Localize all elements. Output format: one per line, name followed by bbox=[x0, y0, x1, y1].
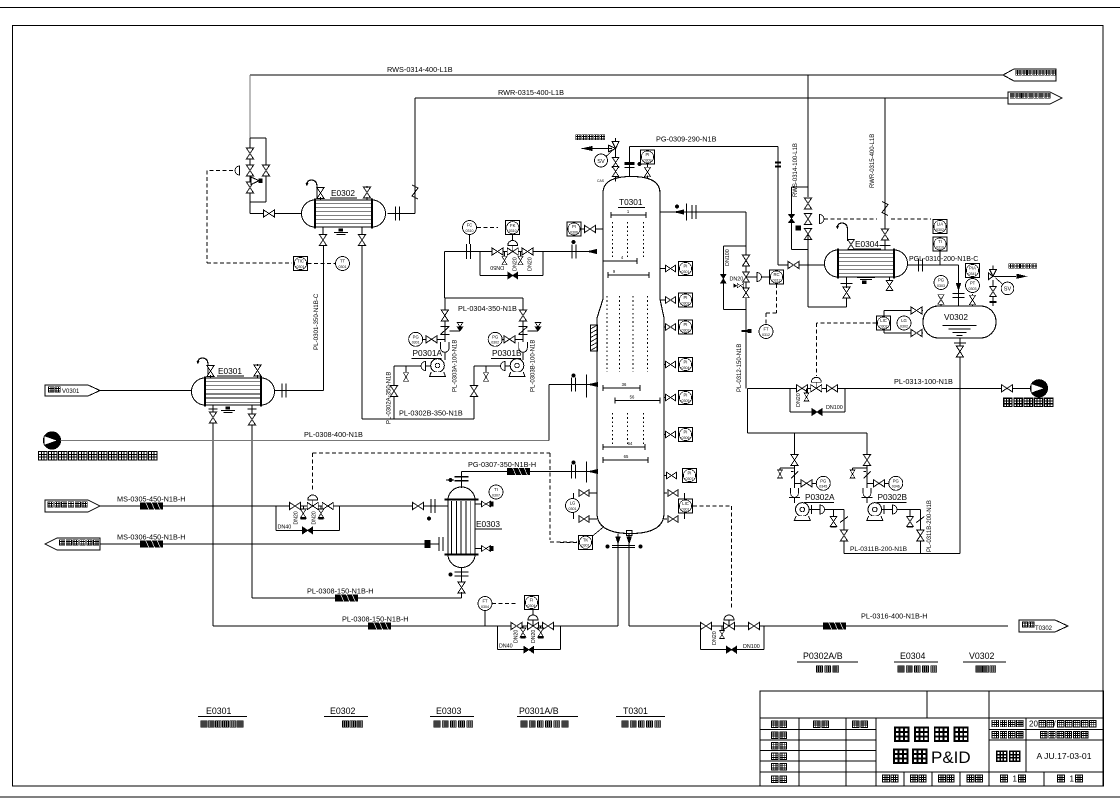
column right side level/pressure instruments bbox=[660, 268, 665, 270]
drum PG gauge bbox=[940, 296, 942, 306]
dashed LIC-0301 signal to bottoms control valve bbox=[693, 505, 732, 507]
instrument TK0301 bbox=[579, 535, 593, 549]
svg-text:CAS: CAS bbox=[597, 179, 605, 183]
P0301A discharge side vent bbox=[449, 330, 460, 332]
svg-text:0310: 0310 bbox=[936, 245, 944, 249]
title text: extractive distillation section P&ID bbox=[895, 728, 908, 741]
valves on PL-0312 main bbox=[742, 255, 749, 266]
svg-text:0302: 0302 bbox=[682, 301, 690, 305]
flag connector: MP steam supply header bbox=[45, 500, 100, 512]
svg-text:V0301: V0301 bbox=[62, 389, 80, 395]
svg-text:RC: RC bbox=[773, 272, 779, 277]
pipe riser RWS from E0302 to header bbox=[249, 75, 251, 138]
pipe PG-0309 into E0304 head bbox=[777, 147, 779, 266]
dashed signal FC to FK bbox=[477, 227, 498, 229]
E0301 drain mark bbox=[226, 407, 231, 410]
svg-text:PL-0312-150-N1B: PL-0312-150-N1B bbox=[737, 344, 743, 392]
insulation spec-break bar bbox=[368, 623, 391, 630]
svg-text:E0304: E0304 bbox=[900, 651, 926, 661]
E0302 top valve left bbox=[317, 188, 324, 199]
svg-text:PL-0302A-350-N1B: PL-0302A-350-N1B bbox=[387, 372, 393, 424]
instrument LIA0302 bbox=[933, 220, 947, 234]
title block row labels: duty/sign/date bbox=[772, 721, 779, 728]
instrument PI0307 bbox=[683, 469, 697, 483]
svg-text:0301: 0301 bbox=[682, 507, 690, 511]
svg-text:0306: 0306 bbox=[570, 230, 578, 234]
svg-text:LIC: LIC bbox=[880, 318, 887, 323]
svg-text:SV: SV bbox=[1004, 287, 1012, 293]
svg-text:TT: TT bbox=[340, 259, 346, 264]
svg-text:DN20: DN20 bbox=[712, 631, 718, 645]
svg-text:PG: PG bbox=[820, 479, 826, 484]
svg-text:T0301: T0301 bbox=[619, 197, 643, 207]
svg-text:DN40: DN40 bbox=[499, 644, 513, 650]
condenser E0304 shell and tube bbox=[825, 250, 908, 277]
PI-0306 root valve bbox=[585, 225, 596, 232]
svg-text:DN20: DN20 bbox=[796, 393, 802, 407]
pipe MS-0306-450-N1B-H bbox=[100, 543, 439, 545]
E0304 vent hook and valve bbox=[836, 223, 848, 241]
instrument TI-0307 bbox=[489, 485, 503, 499]
T0301 support hatch mark bbox=[591, 325, 598, 351]
svg-text:0304: 0304 bbox=[682, 366, 690, 370]
svg-text:0303: 0303 bbox=[682, 328, 690, 332]
svg-text:0346: 0346 bbox=[892, 485, 900, 489]
svg-text:TK: TK bbox=[583, 538, 589, 543]
svg-text:DN50: DN50 bbox=[490, 264, 504, 270]
instrument TI0310 bbox=[933, 237, 947, 251]
drum bottom outlet bbox=[959, 338, 961, 388]
svg-text:DN100: DN100 bbox=[725, 249, 731, 266]
title block outer frame bbox=[760, 691, 1104, 786]
svg-text:DN100: DN100 bbox=[826, 405, 843, 411]
E0303 bottom outlet bbox=[461, 568, 463, 598]
svg-text:T0301: T0301 bbox=[623, 706, 648, 716]
drum PT/PIA bbox=[972, 294, 974, 306]
small blind on bottom dome bbox=[626, 531, 632, 536]
three-way valve side port with cap bbox=[251, 177, 259, 185]
flag connector: to tower T0302 bbox=[1019, 620, 1068, 632]
pipe PG-0309-290-N1B overhead vapor line bbox=[630, 146, 778, 148]
spectacle blind on riser bbox=[625, 162, 635, 165]
E0303 right side stubs bbox=[475, 503, 482, 505]
pipe RWR-0315-400-L1B cooling water return header bbox=[415, 97, 1008, 99]
svg-text:0303: 0303 bbox=[969, 287, 977, 291]
relief line to flare with SV bbox=[615, 149, 617, 182]
svg-text:0301: 0301 bbox=[569, 507, 577, 511]
PG-0301 root valve bbox=[426, 336, 437, 343]
svg-text:DN20: DN20 bbox=[513, 257, 519, 271]
block valve near E0303 bbox=[413, 502, 424, 509]
svg-text:FT: FT bbox=[763, 327, 769, 332]
drain bowtie with black cone bbox=[734, 284, 737, 287]
column entry flange PG-0307 bbox=[572, 465, 576, 479]
insulation spec-break bar bbox=[823, 623, 846, 630]
column T0301 extractive distillation tower shell bbox=[597, 177, 664, 534]
svg-text:DN20: DN20 bbox=[531, 630, 537, 643]
svg-text:0312: 0312 bbox=[762, 333, 770, 337]
svg-text:PT: PT bbox=[970, 281, 976, 286]
svg-text:SV: SV bbox=[597, 159, 605, 165]
instrument PI0305 bbox=[679, 391, 693, 405]
svg-text:0345: 0345 bbox=[819, 485, 827, 489]
flag connector: cooling water return bbox=[1008, 92, 1062, 104]
pipe pump suction header from PL-0313 junction bbox=[747, 388, 749, 433]
block valve before tank connector bbox=[1002, 385, 1013, 392]
svg-text:64: 64 bbox=[628, 441, 633, 446]
pipe PL-0308-150-N1B-H lower bbox=[213, 625, 618, 627]
svg-text:FC: FC bbox=[467, 223, 473, 228]
instrument PG-0346 bbox=[889, 476, 903, 490]
svg-text:FI: FI bbox=[530, 598, 534, 603]
label: propane propylene mix from reaction section bbox=[39, 452, 47, 460]
heat exchanger E0301 shell and tube bbox=[192, 378, 275, 405]
svg-text:P0301A: P0301A bbox=[413, 348, 443, 358]
column entry flange of min-flow line bbox=[572, 245, 576, 259]
instrument FT-0312 bbox=[759, 325, 773, 339]
svg-text:0307: 0307 bbox=[686, 477, 694, 481]
svg-text:V0302: V0302 bbox=[969, 651, 995, 661]
E0301 top relief valve right bbox=[254, 365, 261, 376]
instrument FC-0310 bbox=[463, 221, 477, 235]
svg-text:PG: PG bbox=[413, 335, 419, 340]
svg-text:0301: 0301 bbox=[339, 265, 347, 269]
level gauge LG left column bottom bbox=[579, 492, 597, 494]
pipe PL-0311B-200-N1B discharge header bbox=[844, 553, 960, 555]
instrument PT-0303 bbox=[966, 279, 980, 293]
svg-text:0341: 0341 bbox=[969, 272, 977, 276]
svg-text:PI: PI bbox=[684, 295, 688, 300]
svg-text:PL-0301-350-N1B-C: PL-0301-350-N1B-C bbox=[313, 293, 320, 350]
instrument RC-0312 bbox=[770, 270, 784, 284]
svg-text:PL-0311B-200-N1B: PL-0311B-200-N1B bbox=[850, 546, 908, 553]
heat exchanger E0302 shell and tube bbox=[302, 200, 386, 227]
svg-text:RWS-0314-400-L1B: RWS-0314-400-L1B bbox=[387, 65, 453, 74]
instrument LG-0302 bbox=[897, 316, 911, 330]
svg-text:A JU.17-03-01: A JU.17-03-01 bbox=[1037, 751, 1092, 761]
dashed instrument signal line to TIC-0301 bbox=[207, 170, 233, 172]
P0301A suction drain bbox=[405, 366, 407, 372]
svg-text:MS-0306-450-N1B-H: MS-0306-450-N1B-H bbox=[117, 533, 186, 542]
E0304 right bottom drain valve bbox=[889, 277, 891, 281]
pipe reflux/side nozzle line into column at y212 bbox=[660, 211, 746, 213]
insulation spec-break bar bbox=[335, 595, 358, 602]
level gauge LIC right column bottom bbox=[664, 492, 667, 494]
svg-text:PL-0302B-350-N1B: PL-0302B-350-N1B bbox=[399, 409, 463, 418]
RWS bypass loop bbox=[792, 186, 809, 188]
instrument PIA0341 bbox=[966, 264, 980, 278]
instrument PG-0345 bbox=[816, 476, 830, 490]
svg-text:DN20: DN20 bbox=[294, 511, 300, 524]
svg-text:PL-0308-150-N1B-H: PL-0308-150-N1B-H bbox=[342, 615, 409, 624]
svg-text:PL-0308-400-N1B: PL-0308-400-N1B bbox=[304, 430, 363, 439]
station drain valves with black bases bbox=[522, 626, 524, 630]
paper edge bottom line bbox=[0, 796, 1120, 798]
steam control valve station bbox=[290, 502, 301, 509]
svg-text:0302: 0302 bbox=[900, 324, 908, 328]
svg-text:0310: 0310 bbox=[509, 229, 517, 233]
svg-text:PL-0316-400-N1B-H: PL-0316-400-N1B-H bbox=[861, 612, 928, 621]
dashed RC to FT bbox=[776, 284, 778, 313]
svg-text:DN100: DN100 bbox=[743, 644, 760, 650]
E0302 vent hook bbox=[305, 180, 317, 198]
PL-0316 control station bbox=[701, 622, 712, 629]
P0301B discharge side vent bbox=[528, 330, 539, 332]
svg-text:FT: FT bbox=[482, 599, 488, 604]
pipe PL-0304-350-N1B discharge header bbox=[445, 297, 523, 299]
svg-text:RWR-0315-400-L1B: RWR-0315-400-L1B bbox=[498, 88, 564, 97]
svg-text:DN20: DN20 bbox=[312, 511, 318, 524]
instrument PI-0306 column top left bbox=[567, 222, 581, 236]
pipe PL-0301-350-N1B-C vertical bbox=[323, 246, 325, 391]
svg-text:0301: 0301 bbox=[682, 270, 690, 274]
svg-text:TI: TI bbox=[494, 487, 498, 492]
T0301 internal packing dashes bbox=[612, 222, 614, 257]
svg-text:LIC: LIC bbox=[682, 501, 689, 506]
PI root valve on dome bbox=[647, 164, 649, 168]
connector circle: from reaction section bbox=[44, 432, 61, 449]
bypass DN40 below station bbox=[496, 626, 498, 650]
svg-text:LIA: LIA bbox=[937, 222, 943, 227]
svg-text:E0304: E0304 bbox=[855, 239, 879, 249]
instrument PI-0309 bbox=[641, 150, 655, 164]
pipe PL-0313-100-N1B to propane tank bbox=[748, 387, 1007, 389]
pipe PGL-0310-200-N1B-C condensate to drum bbox=[908, 264, 959, 266]
pipe MS-0305-450-N1B-H bbox=[100, 505, 448, 507]
E0301 bottom nozzles and valves bbox=[212, 405, 214, 412]
svg-text:56: 56 bbox=[630, 394, 635, 399]
svg-text:0305: 0305 bbox=[682, 399, 690, 403]
svg-text:0302: 0302 bbox=[936, 228, 944, 232]
PL-0313 bypass DN100 bbox=[789, 388, 791, 412]
svg-text:PL-0311B-200-N1B: PL-0311B-200-N1B bbox=[927, 500, 933, 552]
P0301B suction line bbox=[474, 365, 510, 367]
connector circle: to propane storage tank bbox=[1013, 387, 1031, 389]
instrument PG-0303 bbox=[934, 276, 948, 290]
pump P0302A suction riser bbox=[794, 433, 796, 503]
pipe RWS down to E0304 bottom bbox=[807, 234, 809, 307]
instrument LIC0301 bbox=[679, 499, 693, 513]
dashed LIC-0302 signal to PL-0313 valve bbox=[816, 322, 876, 324]
reboiler E0303 vertical shell bbox=[448, 487, 475, 500]
svg-text:P0301B: P0301B bbox=[492, 348, 522, 358]
instrument PG-0302 bbox=[488, 332, 502, 346]
svg-text:PL-0313-100-N1B: PL-0313-100-N1B bbox=[894, 377, 953, 386]
instrument SV circle at drum bbox=[1001, 282, 1014, 295]
T0301 tray lines with numbers bbox=[611, 214, 646, 216]
instrument TIC-0301 bbox=[294, 257, 308, 271]
svg-text:P0302B: P0302B bbox=[878, 492, 908, 502]
dashed control signal to steam valve bbox=[312, 453, 314, 490]
drum relief SV to flare bbox=[992, 280, 994, 306]
control valve with actuator on min-flow line bbox=[512, 235, 514, 243]
P0302B discharge line bbox=[882, 509, 921, 511]
svg-text:1: 1 bbox=[1013, 774, 1018, 783]
black valve on PL-0312 bypass bbox=[721, 275, 726, 284]
pipe RWR-0315 branch to E0304 shell bbox=[884, 98, 886, 250]
svg-text:PIA: PIA bbox=[969, 266, 976, 271]
E0302 drain mark bbox=[339, 229, 344, 232]
E0301 vent hook bbox=[196, 358, 208, 376]
svg-text:0303: 0303 bbox=[937, 284, 945, 288]
svg-text:RWR-0315-400-L1B: RWR-0315-400-L1B bbox=[870, 134, 876, 188]
svg-text:0304: 0304 bbox=[481, 605, 489, 609]
pipe RWS-0314-400-L1B cooling water supply header bbox=[250, 74, 1003, 76]
svg-text:PG: PG bbox=[938, 278, 944, 283]
svg-text:P&ID: P&ID bbox=[931, 748, 971, 767]
E0302 top relief valve right bbox=[363, 187, 370, 198]
instrument LIC0302 bbox=[877, 316, 891, 330]
drawing number cell bbox=[997, 751, 1007, 761]
steam trap mark bbox=[425, 540, 431, 548]
bypass line DN50 below station bbox=[479, 252, 481, 276]
svg-text:DN40: DN40 bbox=[278, 525, 292, 531]
PG-0302 root valve bbox=[504, 336, 515, 343]
instrument SV circle bbox=[595, 154, 608, 167]
svg-text:V0302: V0302 bbox=[944, 312, 968, 322]
svg-text:E0301: E0301 bbox=[206, 706, 232, 716]
instrument LG-0301 bbox=[566, 499, 580, 513]
svg-text:PI: PI bbox=[688, 471, 692, 476]
title block right: project info bbox=[992, 720, 999, 727]
dashed TC signal line bbox=[824, 218, 877, 220]
svg-text:DN20: DN20 bbox=[513, 630, 519, 643]
dashed link TIC to TT bbox=[308, 263, 336, 265]
svg-text:LG: LG bbox=[570, 501, 576, 506]
dashed FT to FI bbox=[492, 603, 518, 605]
E0301 top valve left bbox=[207, 366, 214, 377]
svg-text:PI: PI bbox=[684, 322, 688, 327]
instrument PI0304 bbox=[679, 358, 693, 372]
PL-0316 bypass DN100 bbox=[700, 626, 702, 650]
column bottom outlet nozzles bbox=[617, 534, 619, 627]
pipe minimum-flow line to column top bbox=[445, 251, 597, 253]
E0303 inlet flange bbox=[431, 499, 435, 513]
pipe PL-0308-400-N1B bbox=[61, 440, 550, 442]
feed flag: from tower V0301 bbox=[45, 385, 100, 396]
svg-text:PG: PG bbox=[492, 335, 498, 340]
svg-text:65: 65 bbox=[624, 454, 629, 459]
reducer funnel to instrument line bbox=[235, 166, 240, 175]
pipe PL-0302B-350-N1B pump suction header bbox=[362, 418, 474, 420]
svg-text:DN20: DN20 bbox=[528, 257, 534, 271]
pipe riser RWR x415 bbox=[414, 98, 416, 214]
svg-text:T0302: T0302 bbox=[1035, 626, 1053, 632]
svg-text:0307: 0307 bbox=[492, 493, 500, 497]
svg-text:RWS-0314-100-L1B: RWS-0314-100-L1B bbox=[793, 143, 799, 197]
three-way valve station with bypass box bbox=[249, 138, 251, 202]
pipe riser to column feed nozzle bbox=[548, 385, 550, 441]
instrument FI-0304 bbox=[525, 596, 539, 610]
P0302A discharge line bbox=[809, 509, 844, 511]
svg-text:PGL-0310-200-N1B-C: PGL-0310-200-N1B-C bbox=[909, 256, 978, 263]
flag connector: to cooling water supply bbox=[1003, 69, 1056, 81]
pipe PL-0312-150-N1B vertical bbox=[745, 212, 747, 388]
pipe FC station down to PL-0304 header bbox=[444, 252, 446, 299]
svg-text:0304: 0304 bbox=[528, 604, 536, 608]
flag connector: MP steam condensate return bbox=[45, 538, 100, 550]
instrument PI0301 bbox=[679, 262, 693, 276]
svg-text:36: 36 bbox=[622, 382, 627, 387]
svg-text:TIC: TIC bbox=[297, 259, 304, 264]
svg-text:0309: 0309 bbox=[644, 158, 652, 162]
pipe PL-0302B vertical from E0302 bbox=[361, 246, 363, 420]
svg-text:PG: PG bbox=[893, 479, 899, 484]
pipe E0301 outlet to PL-0301 riser bbox=[275, 390, 324, 392]
paper edge top line bbox=[0, 7, 1120, 9]
pipe PL-0308-150-N1B-H upper bbox=[252, 597, 462, 599]
title block grid lines bbox=[760, 717, 1104, 719]
svg-text:0312: 0312 bbox=[773, 278, 781, 282]
svg-text:PL-0303A-100-N1B: PL-0303A-100-N1B bbox=[453, 340, 459, 392]
reflux drum V0302 bbox=[923, 306, 996, 338]
svg-text:E0303: E0303 bbox=[476, 519, 500, 529]
svg-text:E0303: E0303 bbox=[436, 706, 462, 716]
svg-text:20: 20 bbox=[1029, 719, 1038, 728]
orifice flanges bbox=[466, 244, 468, 259]
stub to RC controller bbox=[746, 276, 757, 278]
pump P0301A discharge riser bbox=[444, 298, 446, 360]
svg-text:PL-0303B-100-N1B: PL-0303B-100-N1B bbox=[531, 340, 537, 392]
insulation spec-break bar bbox=[507, 468, 530, 475]
bypass loop on PL-0312 bbox=[723, 245, 746, 247]
svg-text:0306: 0306 bbox=[682, 436, 690, 440]
svg-text:1: 1 bbox=[1070, 774, 1075, 783]
insulation spec-break bar bbox=[140, 503, 163, 510]
svg-text:0301: 0301 bbox=[297, 265, 305, 269]
PL-0313 control station with LIC valve bbox=[797, 385, 808, 392]
svg-text:0310: 0310 bbox=[466, 229, 474, 233]
svg-text:PG-0307-350-N1B-H: PG-0307-350-N1B-H bbox=[468, 460, 536, 469]
station drain valves with black bases bbox=[302, 506, 304, 510]
svg-text:0302: 0302 bbox=[491, 341, 499, 345]
pipe PG-0307-350-N1B-H bbox=[462, 471, 598, 473]
instrument PI lowest right bbox=[664, 475, 667, 477]
svg-text:PI: PI bbox=[684, 393, 688, 398]
pump P0302B suction riser bbox=[866, 433, 868, 503]
svg-text:FK: FK bbox=[510, 223, 516, 228]
P0301B suction drain bbox=[485, 366, 487, 372]
svg-text:DN20: DN20 bbox=[730, 277, 744, 283]
PL-0308 flow control station FK-0304 bbox=[532, 610, 534, 616]
title block bottom row: scale etc bbox=[883, 775, 890, 782]
svg-text:LG: LG bbox=[901, 318, 907, 323]
svg-text:P0302A: P0302A bbox=[805, 492, 835, 502]
svg-text:TI: TI bbox=[938, 239, 942, 244]
E0303 top vapor riser to PG-0307 bbox=[461, 472, 463, 489]
drain valves DN20 on control station bbox=[504, 252, 506, 257]
pump P0301B discharge riser bbox=[522, 298, 524, 360]
svg-text:P0301A/B: P0301A/B bbox=[519, 706, 559, 716]
instrument PG-0301 bbox=[409, 332, 423, 346]
label: to propane storage tank bbox=[1004, 398, 1012, 406]
E0304 drain mark bbox=[862, 281, 867, 285]
sheet number cells bbox=[1001, 775, 1008, 782]
P0301A suction line bbox=[394, 365, 430, 367]
svg-text:P0302A/B: P0302A/B bbox=[803, 651, 843, 661]
svg-text:MS-0305-450-N1B-H: MS-0305-450-N1B-H bbox=[117, 495, 186, 504]
instrument PI0306 bbox=[679, 428, 693, 442]
instrument TT-0301 bbox=[336, 257, 350, 271]
svg-text:E0302: E0302 bbox=[331, 188, 355, 198]
svg-text:PI: PI bbox=[684, 360, 688, 365]
pipe PL-0316-400-N1B-H from column bottom bbox=[629, 625, 1008, 627]
svg-text:E0302: E0302 bbox=[330, 706, 356, 716]
pipe RWS-0314-100-L1B branch to E0304 bbox=[807, 75, 809, 197]
svg-text:0302: 0302 bbox=[880, 324, 888, 328]
svg-text:PI: PI bbox=[572, 224, 576, 229]
instrument PI0302 bbox=[679, 293, 693, 307]
